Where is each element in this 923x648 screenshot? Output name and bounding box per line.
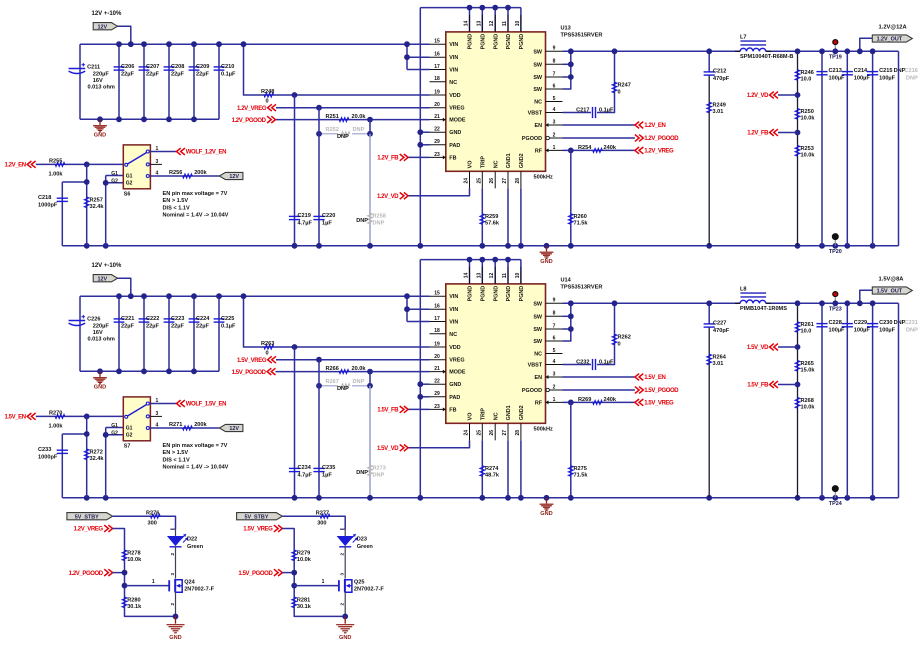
svg-text:0: 0 [266, 99, 269, 105]
svg-text:R269: R269 [578, 397, 591, 403]
svg-text:1.2V_PGOOD: 1.2V_PGOOD [69, 571, 104, 577]
svg-text:17: 17 [434, 64, 440, 70]
resistor R269 [578, 397, 617, 404]
net label 1.2V_VD chip [377, 192, 408, 200]
svg-text:3.01: 3.01 [713, 109, 724, 115]
test point TP19 [829, 40, 842, 61]
capacitor C209 [189, 64, 210, 78]
svg-text:12: 12 [489, 273, 495, 279]
svg-text:GND: GND [94, 385, 106, 391]
wire SW876 vertical (1.2V) [563, 51, 571, 89]
junction VIN16 (1.2V) [404, 54, 410, 60]
net label 1.5V_EN chip [635, 374, 666, 382]
power tag 5V_STBY (1.2V LED) [67, 513, 113, 521]
svg-text:VBST: VBST [528, 111, 543, 117]
net label 1.2V_EN chip [635, 122, 666, 130]
svg-text:PGOOD: PGOOD [522, 136, 542, 142]
inductor L8 PIMB104T-1R0MS [735, 287, 787, 312]
junction output tag (1.5V) [857, 300, 863, 306]
svg-text:C232: C232 [576, 359, 589, 365]
net tag 1.2V_OUT [872, 35, 912, 43]
wire C220 column [318, 108, 320, 246]
wire bulk cap branch (1.2V) [79, 44, 81, 119]
svg-text:2N7002-7-F: 2N7002-7-F [184, 586, 214, 592]
wire VREG to divider (1.2V LED) [113, 529, 176, 617]
junction PGOOD (1.2V LED) [122, 570, 128, 576]
wire DNP column lower (1.5V) [369, 386, 371, 498]
svg-text:22µF: 22µF [171, 324, 184, 330]
junction rail x872 (1.2V) [870, 243, 876, 249]
svg-text:16V: 16V [93, 78, 103, 84]
junction SW8 (1.2V) [568, 61, 574, 67]
junction EN cap (1.2V) [84, 179, 90, 185]
svg-text:R263: R263 [261, 341, 274, 347]
svg-text:R278: R278 [127, 550, 140, 556]
svg-text:EN: EN [535, 123, 543, 129]
wire C234 column [294, 347, 296, 498]
junction bus C210 [216, 41, 222, 47]
junction RF divider (1.5V) [568, 400, 574, 406]
capacitor C218 [38, 195, 68, 209]
svg-text:23: 23 [434, 152, 440, 158]
pin 2 FET source (1.5V LED) [340, 603, 345, 606]
wire DNP column lower (1.2V) [369, 134, 371, 246]
junction VIN16 (1.5V) [404, 306, 410, 312]
svg-text:R272: R272 [90, 449, 103, 455]
resistor R273 DNP [356, 465, 386, 478]
svg-text:PGND: PGND [519, 34, 525, 50]
svg-text:WOLF_1.5V_EN: WOLF_1.5V_EN [186, 402, 226, 408]
wire snubber vertical lower (1.5V) [708, 328, 710, 498]
pin 1 gate (1.5V LED) [322, 579, 325, 585]
wire output tag stub (1.5V) [860, 290, 872, 303]
svg-text:SW: SW [533, 314, 543, 320]
junction bus C207 [141, 41, 147, 47]
svg-text:10.0: 10.0 [801, 329, 812, 335]
wire cap column C210 [218, 44, 220, 119]
resistor R275 [569, 466, 589, 479]
resistor R260 [569, 214, 589, 227]
capacitor C231 DNP (not placed) [905, 320, 919, 334]
transistor Q25 2N7002-7-F [339, 579, 384, 593]
svg-text:3: 3 [553, 371, 556, 377]
svg-text:1.5V_VREG: 1.5V_VREG [237, 358, 267, 364]
wire VIN branch (1.2V) [406, 44, 408, 69]
wire cap column C225 [218, 296, 220, 371]
junction SW7 (1.2V) [568, 74, 574, 80]
junction rail x835 (1.5V) [832, 495, 838, 501]
wire VREG to divider (1.5V LED) [282, 529, 345, 617]
junction bootstrap (1.5V) [612, 300, 618, 306]
capacitor C207 [139, 64, 160, 78]
svg-text:220µF: 220µF [93, 71, 110, 77]
wire switch pin3 stub (1.5V) [150, 415, 162, 417]
svg-text:S7: S7 [124, 443, 131, 449]
capacitor C220 [313, 213, 335, 227]
junction divider top (1.2V) [795, 48, 801, 54]
svg-text:R280: R280 [127, 597, 140, 603]
svg-text:3: 3 [170, 573, 175, 576]
wire RF lower divider (1.2V) [570, 150, 572, 245]
svg-text:VREG: VREG [449, 358, 464, 364]
svg-text:C229: C229 [854, 320, 867, 326]
wire FET source (1.5V LED) [344, 592, 346, 617]
svg-text:13: 13 [476, 21, 482, 27]
svg-text:8: 8 [553, 59, 556, 65]
capacitor C222 [139, 316, 160, 330]
resistor R280 [122, 597, 142, 610]
svg-text:G2: G2 [126, 433, 133, 439]
svg-text:12V +-10%: 12V +-10% [92, 263, 123, 269]
svg-text:1.2V_VD: 1.2V_VD [747, 93, 769, 99]
junction rail C208 [166, 116, 172, 122]
svg-text:FB: FB [449, 407, 456, 413]
wire output cap column C213 [821, 51, 823, 246]
junction PGND 2 (1.2V) [479, 5, 485, 11]
svg-text:27: 27 [502, 178, 508, 184]
svg-text:GND2: GND2 [519, 405, 525, 420]
junction rail C223 [166, 368, 172, 374]
svg-text:NC: NC [534, 352, 542, 358]
svg-text:DNP: DNP [356, 218, 368, 224]
svg-text:100µF: 100µF [829, 76, 846, 82]
resistor R256 [169, 170, 208, 178]
power tag 5V_STBY (1.5V LED) [237, 513, 283, 521]
svg-text:R257: R257 [90, 197, 103, 203]
switch S6 [123, 145, 158, 197]
svg-text:0.1µF: 0.1µF [221, 72, 236, 78]
junction MODE-DNP (1.2V) [367, 117, 373, 123]
svg-text:C227: C227 [713, 321, 726, 327]
junction source-gnd (1.2V LED) [173, 614, 179, 620]
ground rail symbol (1.5V) [540, 498, 554, 517]
junction bus C208 [166, 41, 172, 47]
svg-text:2: 2 [553, 132, 556, 138]
resistor R271 [169, 422, 208, 430]
value 0 R248 [266, 99, 269, 105]
net label 1.5V_PGOOD chip [635, 387, 679, 395]
junction out C215 top [870, 48, 876, 54]
junction rail x86 (1.2V) [84, 243, 90, 249]
junction PGND 4 (1.2V) [505, 5, 511, 11]
svg-text:L8: L8 [740, 287, 747, 293]
wire cap column C224 [193, 296, 195, 371]
svg-text:1.2V_VD: 1.2V_VD [377, 194, 399, 200]
junction bus C209 [191, 41, 197, 47]
svg-text:21: 21 [434, 366, 440, 372]
svg-text:R247: R247 [618, 83, 631, 89]
wire TP bottom stub (1.5V) [834, 492, 836, 498]
svg-text:100µF: 100µF [829, 328, 846, 334]
svg-text:R262: R262 [618, 335, 631, 341]
junction TP top (1.5V) [832, 300, 838, 306]
wire ground rail (1.2V) [62, 245, 898, 247]
label 1.5V@8A [879, 277, 905, 283]
svg-text:240k: 240k [604, 145, 617, 151]
power tag 12V pullup (1.2V) [219, 172, 243, 180]
svg-text:TP23: TP23 [829, 307, 842, 313]
junction PGND 4 (1.5V) [505, 257, 511, 263]
pin 2 LED (1.5V LED) [340, 553, 345, 556]
svg-text:3: 3 [553, 119, 556, 125]
svg-text:C216: C216 [905, 68, 918, 74]
svg-text:C221: C221 [121, 316, 134, 322]
svg-text:R281: R281 [297, 597, 310, 603]
junction rail x420 (1.2V) [417, 243, 423, 249]
svg-text:23: 23 [434, 404, 440, 410]
wire MODE (1.2V) [276, 119, 430, 121]
svg-text:1.2V_OUT: 1.2V_OUT [877, 37, 903, 43]
svg-text:MODE: MODE [449, 118, 466, 124]
net label WOLF_1.2V_EN [177, 148, 227, 156]
junction rail x709 (1.2V) [706, 243, 712, 249]
net label 1.5V_VREG left [237, 356, 276, 364]
svg-text:2: 2 [553, 384, 556, 390]
junction VD tap (1.5V) [795, 344, 801, 350]
wire DNP column upper (1.2V) [369, 120, 371, 134]
svg-text:R246: R246 [801, 70, 814, 76]
label G1 (1.5V) [111, 423, 118, 429]
ground LED (1.2V LED) [167, 616, 185, 640]
resistor R272 [85, 449, 105, 462]
pin 2 FET source (1.2V LED) [170, 603, 175, 606]
junction MODE-DNP (1.5V) [367, 369, 373, 375]
wire switch node bus left (1.5V) [563, 302, 741, 304]
junction rail x847 (1.5V) [844, 495, 850, 501]
wire EN cap vertical (1.5V) [61, 434, 63, 498]
svg-text:32.4k: 32.4k [90, 204, 105, 210]
wire 12V top bus (1.5V) [80, 295, 430, 297]
svg-text:R252: R252 [326, 127, 339, 133]
svg-text:1.5V_PGOOD: 1.5V_PGOOD [232, 370, 267, 376]
svg-text:PGND: PGND [468, 286, 474, 302]
junction rail x822 (1.2V) [819, 243, 825, 249]
svg-text:24: 24 [464, 430, 470, 436]
svg-text:2: 2 [170, 603, 175, 606]
wire EN RC vertical (1.2V) [86, 164, 88, 245]
capacitor C234 [289, 465, 313, 479]
wire VD tap (1.2V) [778, 94, 798, 96]
net label 1.5V_VREG LED [243, 525, 282, 533]
wire GND pin stub (1.2V) [420, 131, 429, 133]
svg-text:0.1µF: 0.1µF [599, 107, 614, 113]
wire TRIP vertical (1.2V) [481, 188, 483, 246]
resistor R261 [795, 322, 814, 335]
svg-text:D22: D22 [187, 537, 197, 543]
svg-text:7: 7 [553, 71, 556, 77]
net label 1.2V_VD divider [747, 92, 778, 100]
wire PGND column 5 (1.5V) [520, 260, 522, 284]
wire switch node bus right (1.2V) [766, 50, 899, 52]
junction bus C224 [191, 293, 197, 299]
wire TRIP vertical (1.5V) [481, 440, 483, 498]
wire DNP column upper (1.5V) [369, 372, 371, 386]
svg-text:C223: C223 [171, 316, 184, 322]
wire PGND column 2 (1.2V) [481, 8, 483, 32]
junction PGND 2 (1.5V) [479, 257, 485, 263]
svg-text:R255: R255 [49, 158, 62, 164]
resistor R246 [795, 70, 814, 83]
resistor R274 [480, 466, 500, 479]
svg-text:1.5V_OUT: 1.5V_OUT [877, 289, 903, 295]
wire LED to FET (1.5V LED) [344, 547, 346, 579]
wire cap column C222 [143, 296, 145, 371]
svg-text:57.6k: 57.6k [485, 221, 500, 227]
value 1.00k R255 [49, 171, 64, 177]
svg-text:C213: C213 [829, 68, 842, 74]
svg-text:VREG: VREG [449, 106, 464, 112]
svg-text:G2: G2 [111, 178, 118, 184]
svg-text:DNP: DNP [906, 76, 918, 82]
svg-text:2N7002-7-F: 2N7002-7-F [354, 586, 384, 592]
svg-text:29: 29 [434, 139, 440, 145]
svg-text:14: 14 [464, 273, 470, 279]
capacitor C215 [867, 68, 896, 82]
svg-text:SW: SW [533, 75, 543, 81]
junction out C213 top [819, 48, 825, 54]
junction SW8 (1.5V) [568, 313, 574, 319]
svg-text:Nominal = 1.4V -> 10.04V: Nominal = 1.4V -> 10.04V [163, 213, 229, 219]
svg-text:C219: C219 [298, 213, 311, 219]
svg-text:100µF: 100µF [879, 328, 896, 334]
value 300 R276 [148, 521, 157, 527]
svg-text:R256: R256 [169, 170, 182, 176]
wire LED to FET (1.2V LED) [175, 547, 177, 579]
svg-text:20: 20 [434, 354, 440, 360]
junction rail C222 [141, 368, 147, 374]
wire G1G2 vertical (1.2V) [105, 176, 107, 246]
svg-text:TP19: TP19 [829, 55, 842, 61]
wire 12V top bus (1.2V) [80, 43, 430, 45]
junction gate node (1.5V LED) [291, 583, 297, 589]
wire VREG (1.5V) [276, 359, 430, 361]
junction source-gnd (1.5V LED) [342, 614, 348, 620]
svg-text:0.013 ohm: 0.013 ohm [88, 85, 115, 91]
net label 1.5V_FB chip [377, 406, 408, 414]
wire cap column C206 [118, 44, 120, 119]
svg-text:DNP: DNP [337, 134, 349, 140]
junction VREG-C (1.2V) [316, 105, 322, 111]
junction PGND 3 (1.2V) [492, 5, 498, 11]
svg-text:G1: G1 [126, 173, 133, 179]
svg-text:1: 1 [553, 397, 556, 403]
junction rail x570 (1.5V) [568, 495, 574, 501]
svg-text:1: 1 [553, 145, 556, 151]
svg-text:0: 0 [266, 351, 269, 357]
svg-text:1.2V_VREG: 1.2V_VREG [644, 149, 674, 155]
label 12V tolerance (1.2V) [92, 11, 123, 17]
label 500kHz (1.5V) [534, 426, 553, 432]
svg-text:1.2V_VREG: 1.2V_VREG [237, 106, 267, 112]
svg-text:NC: NC [534, 100, 542, 106]
svg-text:DIS < 1.1V: DIS < 1.1V [163, 457, 190, 463]
svg-text:DIS < 1.1V: DIS < 1.1V [163, 205, 190, 211]
svg-text:9: 9 [553, 298, 556, 304]
wire PGND top bus (1.5V) [420, 259, 521, 261]
svg-text:VIN: VIN [449, 68, 458, 74]
switch S7 [123, 397, 158, 449]
svg-text:SW: SW [533, 87, 543, 93]
LED D22 green [168, 529, 204, 550]
junction out C228 top [819, 300, 825, 306]
wire RF (1.5V) [563, 401, 635, 403]
svg-text:C206: C206 [121, 64, 134, 70]
svg-text:1.5V_PGOOD: 1.5V_PGOOD [644, 388, 679, 394]
label DNP C230 [894, 320, 906, 326]
svg-text:16: 16 [434, 304, 440, 310]
svg-text:4: 4 [553, 107, 556, 113]
IC U14 TPS53513RVER [430, 267, 563, 440]
junction snubber top (1.2V) [706, 48, 712, 54]
LED D23 green [338, 529, 374, 550]
svg-text:R266: R266 [326, 366, 339, 372]
svg-text:15: 15 [434, 39, 440, 45]
svg-text:10.0k: 10.0k [297, 557, 312, 563]
junction snubber top (1.5V) [706, 300, 712, 306]
svg-text:EN pin max voltage = 7V: EN pin max voltage = 7V [163, 191, 228, 197]
capacitor C216 DNP (not placed) [905, 68, 919, 82]
net label 1.5V_PGOOD LED [238, 569, 282, 577]
svg-text:R276: R276 [146, 510, 159, 516]
wire VDD feed (1.2V) [244, 44, 430, 95]
wire SW8 stub (1.5V) [563, 315, 571, 317]
svg-text:Green: Green [187, 544, 204, 550]
junction rail x319 (1.2V) [316, 243, 322, 249]
wire VIN17 stub (1.2V) [407, 69, 430, 71]
wire VIN16 stub (1.5V) [407, 308, 430, 310]
net label 1.2V_FB divider [747, 129, 778, 137]
svg-text:10.0: 10.0 [801, 77, 812, 83]
power tag 12V (1.2V) [93, 23, 117, 31]
svg-text:1.2V_PGOOD: 1.2V_PGOOD [644, 136, 679, 142]
IC U13 TPS53515RVER [430, 15, 563, 188]
wire cap bank ground rail (1.2V) [80, 118, 219, 120]
resistor R259 [480, 214, 500, 227]
junction RF divider (1.2V) [568, 148, 574, 154]
svg-text:C222: C222 [146, 316, 159, 322]
junction DNP left (1.2V) [316, 131, 322, 137]
svg-text:GND: GND [449, 382, 461, 388]
svg-text:29: 29 [434, 391, 440, 397]
wire PGND column 4 (1.2V) [507, 8, 509, 32]
svg-text:R260: R260 [574, 214, 587, 220]
wire switch node bus left (1.2V) [563, 50, 741, 52]
junction VIN15 (1.2V) [404, 41, 410, 47]
svg-text:C226: C226 [87, 317, 100, 323]
inductor L7 SPM10040T-R68M-B [735, 35, 793, 60]
junction PGND 1 (1.2V) [467, 5, 473, 11]
svg-text:SW: SW [533, 327, 543, 333]
wire FB (1.5V) [408, 408, 430, 410]
capacitor C226 (1.5V) [69, 315, 115, 343]
wire output cap column C228 [821, 303, 823, 498]
svg-text:5: 5 [553, 96, 556, 102]
wire GND2 vertical (1.5V) [520, 440, 522, 498]
svg-text:71.5k: 71.5k [574, 473, 589, 479]
capacitor C211 (1.2V) [69, 63, 115, 91]
wire FET source (1.2V LED) [175, 592, 177, 617]
svg-text:G2: G2 [126, 181, 133, 187]
pin 1 gate (1.2V LED) [152, 579, 155, 585]
junction gate node (1.2V LED) [122, 583, 128, 589]
net label 1.2V_EN left [4, 161, 35, 169]
value 0 R262 [618, 342, 621, 348]
svg-text:R253: R253 [801, 146, 814, 152]
ground input bank (1.5V) [93, 371, 107, 390]
svg-text:0.013 ohm: 0.013 ohm [88, 337, 115, 343]
svg-text:PAD: PAD [449, 143, 460, 149]
junction rail x105 (1.2V) [103, 243, 109, 249]
